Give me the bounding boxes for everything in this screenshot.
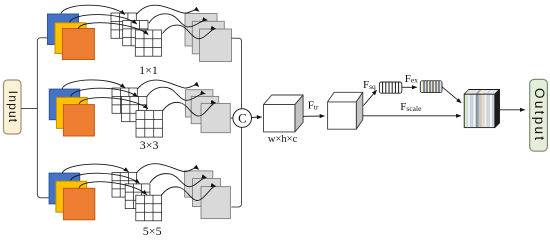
row1 output map back	[185, 14, 217, 47]
row2 output map front	[201, 103, 230, 132]
row1 arrow grid mid to output mid	[149, 14, 208, 27]
svg-text:5×5: 5×5	[143, 224, 162, 238]
row1 output map front	[200, 29, 232, 62]
arrow cube1 to cube2 Ftr	[303, 115, 324, 117]
row2 arrow orange to grid front	[79, 98, 148, 109]
arrow squeeze Fsq	[364, 90, 377, 105]
row1 feature map blue	[48, 14, 79, 45]
cube2	[328, 92, 363, 129]
row3 output map back	[185, 171, 213, 197]
row2 arrow grid mid to output mid	[147, 87, 206, 100]
svg-text:Fex: Fex	[405, 73, 418, 85]
row3 arrow grid front to output front	[161, 186, 215, 200]
row1 arrow grid front to output front	[163, 25, 216, 39]
row1 kernel grid mid	[123, 21, 148, 46]
row3 kernel grid mid	[125, 184, 150, 209]
row1 arrow yellow to grid mid	[70, 15, 137, 24]
row1 arrow grid back to output back	[137, 5, 200, 14]
arrow bar2 to scaled block	[442, 87, 461, 103]
row3 output map front	[201, 187, 230, 219]
row3 arrow blue to grid back	[62, 164, 129, 173]
row2 kernel grid back	[112, 88, 137, 113]
wire input to trunk	[21, 108, 37, 110]
arrow Fscale cube2 to scaled block	[363, 115, 461, 117]
wire trunk branch	[37, 38, 48, 198]
row1 arrow blue to grid back	[61, 5, 125, 14]
row1 feature map yellow	[55, 23, 86, 54]
row2 arrow yellow to grid mid	[71, 88, 138, 97]
row2 output map back	[185, 90, 213, 117]
svg-text:Fscale: Fscale	[400, 101, 422, 113]
svg-text:w×h×c: w×h×c	[268, 134, 298, 145]
row1 feature map orange	[62, 29, 94, 60]
row2 feature map yellow	[56, 97, 87, 128]
row2 feature map orange	[63, 105, 94, 136]
row3 kernel grid front	[136, 195, 162, 221]
row1 kernel grid back	[111, 13, 136, 38]
svg-text:Fsq: Fsq	[363, 79, 376, 91]
svg-text:1×1: 1×1	[139, 63, 158, 77]
input box	[4, 80, 22, 134]
row2 kernel grid mid	[122, 96, 147, 121]
row2 arrow grid back to output back	[137, 80, 199, 89]
svg-text:Output: Output	[532, 88, 547, 142]
row3 arrow orange to grid front	[79, 182, 147, 195]
row2 arrow grid front to output front	[163, 102, 216, 116]
concat node C	[233, 109, 252, 128]
row3 kernel grid back	[112, 173, 137, 198]
svg-text:C: C	[238, 111, 247, 126]
svg-text:Input: Input	[6, 91, 20, 124]
row2 kernel grid front	[136, 111, 163, 138]
arrow block to output	[500, 109, 525, 111]
cube1 w x h x c	[264, 95, 304, 132]
row2 arrow blue to grid back	[62, 80, 125, 89]
row3 arrow yellow to grid mid	[71, 173, 140, 183]
row3 feature map orange	[63, 188, 94, 220]
row3 feature map yellow	[56, 181, 87, 212]
row3 feature map blue	[49, 173, 80, 204]
scaled feature block	[464, 90, 499, 128]
wire concat bracket	[231, 38, 241, 207]
row2 feature map blue	[49, 89, 79, 120]
arrow concat to cube1	[252, 116, 262, 119]
row1 kernel grid front	[135, 30, 161, 56]
svg-text:3×3: 3×3	[140, 138, 159, 152]
row3 output map mid	[193, 179, 221, 207]
row3 arrow grid back to output back	[137, 164, 199, 173]
excitation vector bar2	[420, 81, 442, 93]
squeeze vector bar1	[379, 82, 401, 93]
wire row2 to concat	[230, 117, 233, 119]
arrow excitation Fex	[402, 86, 417, 88]
row2 output map mid	[191, 96, 219, 123]
svg-text:Ftr: Ftr	[308, 100, 319, 112]
output box	[530, 79, 548, 151]
row3 arrow grid mid to output mid	[150, 174, 207, 187]
row1 arrow orange to grid front	[78, 23, 148, 35]
row1 output map mid	[192, 21, 224, 54]
